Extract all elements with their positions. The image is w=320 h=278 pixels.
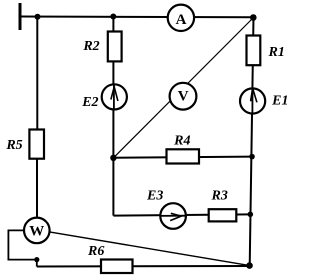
svg-text:A: A bbox=[176, 12, 187, 28]
svg-text:R2: R2 bbox=[82, 39, 99, 54]
svg-text:R1: R1 bbox=[268, 45, 285, 60]
svg-text:E2: E2 bbox=[81, 95, 98, 110]
svg-text:R5: R5 bbox=[5, 138, 22, 153]
svg-text:R6: R6 bbox=[87, 244, 104, 259]
svg-text:W: W bbox=[29, 223, 44, 239]
svg-text:V: V bbox=[178, 89, 189, 105]
svg-text:R4: R4 bbox=[173, 134, 190, 149]
svg-text:E1: E1 bbox=[271, 94, 288, 109]
svg-text:E3: E3 bbox=[146, 189, 163, 204]
svg-text:R3: R3 bbox=[211, 189, 228, 204]
